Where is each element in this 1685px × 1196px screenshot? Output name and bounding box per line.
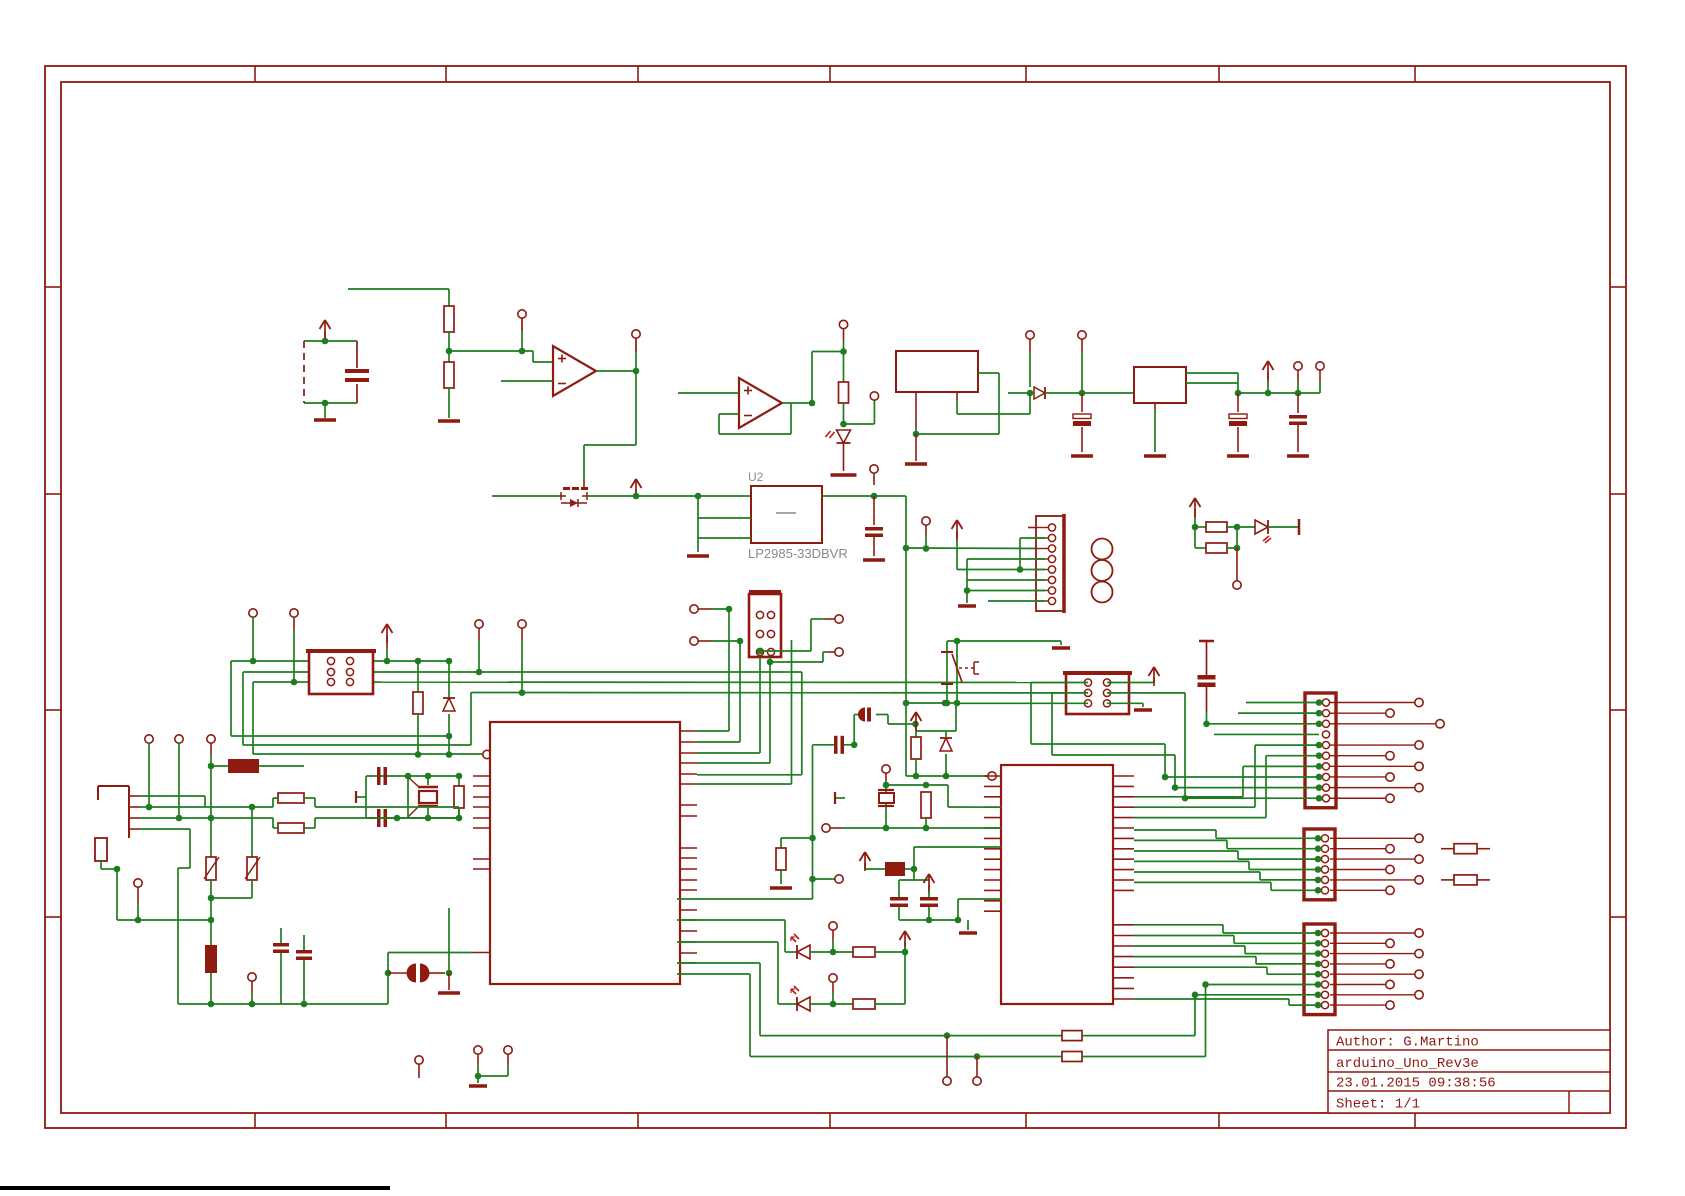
svg-text:Author: G.Martino: Author: G.Martino: [1336, 1035, 1479, 1051]
svg-text:LP2985-33DBVR: LP2985-33DBVR: [748, 546, 848, 561]
svg-text:arduino_Uno_Rev3e: arduino_Uno_Rev3e: [1336, 1056, 1479, 1072]
svg-text:23.01.2015 09:38:56: 23.01.2015 09:38:56: [1336, 1076, 1496, 1092]
svg-text:Sheet: 1/1: Sheet: 1/1: [1336, 1097, 1420, 1113]
svg-text:U2: U2: [748, 470, 764, 484]
